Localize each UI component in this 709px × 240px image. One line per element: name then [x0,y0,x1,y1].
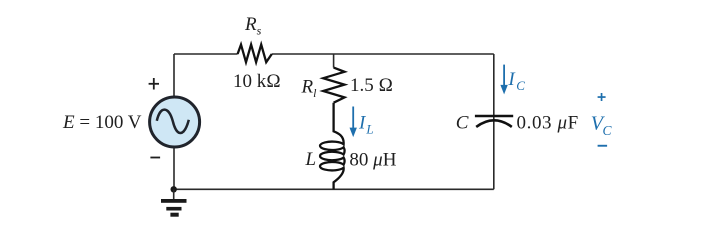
resistor Rl [323,68,344,103]
label source plus sign [149,78,159,90]
label Rl [301,77,318,101]
wire bottom [174,188,494,190]
label L [305,149,317,170]
svg-text:L: L [305,149,317,170]
label IL [358,113,374,137]
label Rs value 10 kΩ [233,71,281,92]
svg-text:0.03 μF: 0.03 μF [517,112,579,133]
label IC [507,69,525,93]
current arrow IC [500,65,507,95]
svg-text:10 kΩ: 10 kΩ [233,71,281,92]
svg-text:VC: VC [591,113,613,138]
label VC [591,113,613,138]
wire middle branch top [333,54,335,68]
label Rl value 1.5 Ω [350,75,393,96]
label E = 100 V [62,112,142,133]
inductor L [320,103,345,190]
label C value 0.03 μF [517,112,579,133]
voltage source E [150,97,200,147]
capacitor C top plate [475,115,513,118]
current arrow IL [350,107,357,138]
label VC plus sign [598,93,606,101]
node ground junction [171,186,177,192]
label L value 80 μH [349,150,396,171]
label Rs [244,14,262,38]
svg-text:IC: IC [507,69,525,93]
capacitor C curved plate [476,120,512,127]
resistor Rs [238,45,272,63]
svg-text:Rl: Rl [301,77,318,101]
label VC minus sign [598,145,608,147]
svg-text:E = 100 V: E = 100 V [62,112,142,133]
wire left vertical [173,54,175,189]
svg-text:80 μH: 80 μH [349,150,396,171]
svg-text:C: C [456,113,469,134]
wire top-left segment [174,53,238,55]
svg-text:IL: IL [358,113,374,137]
wire right vertical [493,54,495,189]
label C [456,113,469,134]
wire top-right segment [272,53,494,55]
label source minus sign [150,157,160,159]
ground [161,189,187,216]
svg-text:1.5 Ω: 1.5 Ω [350,75,393,96]
svg-text:Rs: Rs [244,14,262,38]
